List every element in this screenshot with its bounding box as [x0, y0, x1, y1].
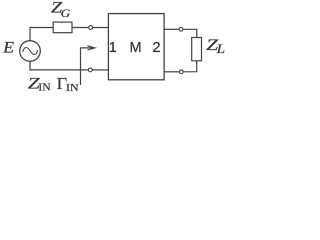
svg-text:M: M [129, 40, 141, 56]
svg-text:L: L [215, 42, 225, 56]
output terminal (top) [179, 27, 183, 31]
label Z_G [51, 0, 71, 20]
label Z_IN [28, 76, 51, 94]
wire: Z_L bottom to output terminal (bottom) [184, 61, 197, 72]
svg-text:IN: IN [38, 83, 51, 94]
wire: source bottom to bottom input terminal [30, 61, 88, 70]
svg-text:G: G [61, 6, 71, 20]
wire: source top to Z_G [30, 28, 53, 41]
wire: M box to output terminal (top) [164, 28, 179, 30]
wire: Z_G to input terminal [72, 27, 88, 29]
svg-text:IN: IN [66, 83, 79, 94]
wire: bottom output terminal to M box [164, 71, 179, 73]
wire: output terminal to Z_L top [183, 29, 197, 37]
wire: input terminal to M box [93, 27, 109, 29]
arrow Γ_IN (reference plane, into port 1) [81, 46, 96, 85]
source E (AC generator) [20, 41, 41, 62]
svg-text:1: 1 [109, 40, 117, 56]
load Z_L [192, 38, 202, 61]
two-port network M [108, 14, 164, 80]
svg-text:2: 2 [152, 40, 160, 56]
svg-text:E: E [2, 40, 15, 57]
resistor Z_G (generator impedance) [53, 22, 72, 33]
label Z_L [206, 37, 225, 56]
input terminal (bottom) [88, 68, 92, 72]
input terminal (top) [89, 26, 93, 30]
wire: bottom input terminal to M box [93, 69, 109, 71]
output terminal (bottom) [179, 70, 183, 74]
label Γ_IN [57, 74, 80, 94]
